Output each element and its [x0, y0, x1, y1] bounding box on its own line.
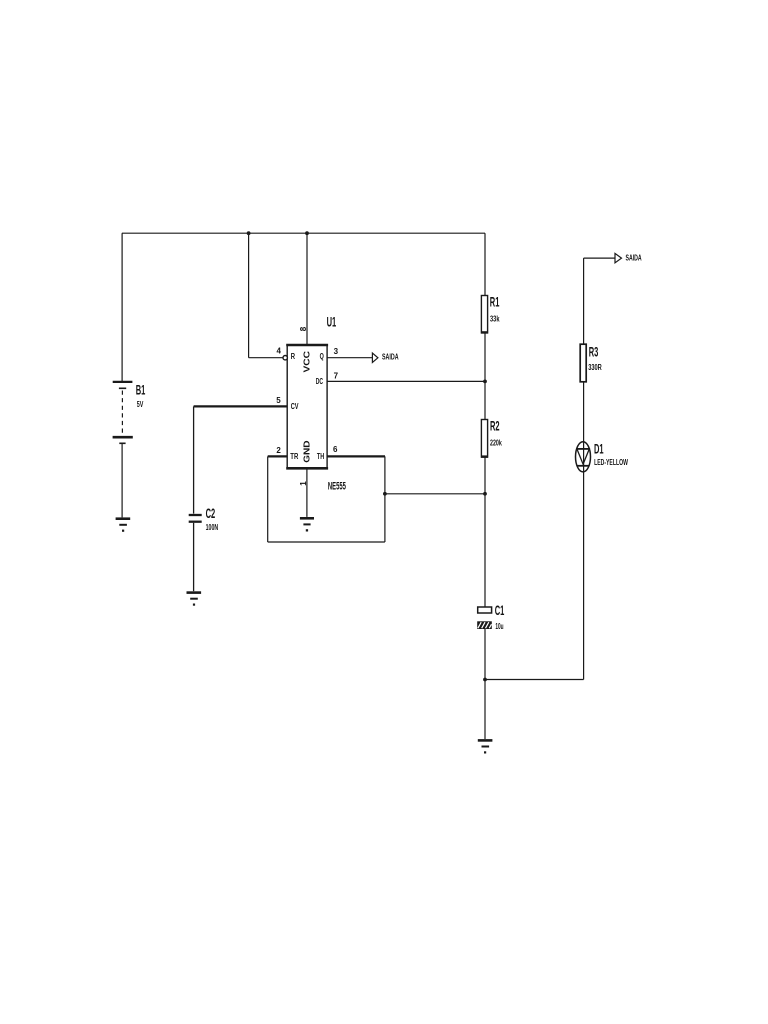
wire: VCC top rail	[122, 232, 485, 234]
wire: C1 to ground	[484, 629, 486, 739]
svg-text:CV: CV	[291, 401, 299, 411]
wire: node to divider	[385, 493, 485, 495]
svg-text:DC: DC	[316, 376, 323, 386]
resistor R2	[481, 420, 488, 458]
svg-text:U1: U1	[327, 314, 337, 330]
svg-text:4: 4	[277, 346, 282, 355]
wire: pin4 branch horizontal	[249, 357, 284, 359]
wire: B1 top vertical	[121, 233, 123, 381]
wire: R2 to C1	[484, 457, 486, 607]
wire: DC pin 7 to divider	[327, 380, 485, 382]
wire: TH pin 6 (thick)	[327, 455, 385, 457]
junction dot (divider / node wire)	[483, 492, 487, 496]
svg-text:6: 6	[333, 445, 338, 454]
wire: TR loop bottom	[268, 541, 385, 543]
svg-text:R3: R3	[589, 343, 599, 359]
svg-text:3: 3	[334, 347, 339, 356]
net arrow SAIDA (LED branch)	[615, 253, 622, 262]
wire: C2 to ground	[193, 523, 195, 591]
wire: SAIDA stub (LED branch)	[584, 257, 615, 259]
capacitor C2	[189, 515, 202, 522]
svg-text:B1: B1	[136, 381, 146, 397]
junction dot (loop / node wire)	[383, 492, 387, 496]
svg-text:C1: C1	[495, 602, 505, 618]
svg-text:7: 7	[334, 372, 339, 381]
svg-text:SAIDA: SAIDA	[382, 351, 399, 361]
svg-text:GND: GND	[302, 441, 312, 463]
svg-text:5: 5	[276, 396, 281, 405]
capacitor C1 (electrolytic)	[477, 607, 492, 629]
wire: rail to R1	[484, 233, 486, 295]
junction dot (rail / pin4 branch)	[247, 231, 251, 235]
svg-text:R1: R1	[490, 294, 500, 310]
svg-text:33k: 33k	[490, 313, 500, 323]
junction dot (DC / divider)	[483, 380, 487, 384]
svg-text:TH: TH	[317, 451, 324, 461]
svg-text:LED-YELLOW: LED-YELLOW	[594, 457, 628, 467]
wire: TR pin 2 (thick)	[268, 455, 288, 457]
LED D1	[576, 442, 591, 472]
svg-text:SAIDA: SAIDA	[626, 253, 642, 263]
wire: CV pin 5 (thick)	[194, 405, 288, 407]
svg-text:D1: D1	[594, 440, 604, 456]
svg-text:R2: R2	[490, 418, 500, 434]
wire: pin4 branch vertical	[248, 233, 250, 358]
svg-text:C2: C2	[206, 505, 216, 521]
wire: VCC pin 8 vertical	[306, 233, 308, 344]
svg-text:Q: Q	[320, 351, 324, 361]
op-amp U1 body (NE555)	[286, 345, 328, 469]
svg-text:NE555: NE555	[328, 480, 346, 492]
svg-text:TR: TR	[290, 451, 299, 461]
svg-text:220k: 220k	[490, 437, 502, 447]
ground (C1)	[478, 740, 493, 753]
ground (U1 pin 1)	[300, 518, 314, 531]
wire: B1 bottom vertical	[121, 443, 123, 517]
resistor R3	[580, 344, 586, 382]
wire: C2 vertical	[193, 406, 195, 513]
svg-text:R: R	[291, 351, 296, 361]
battery B1	[113, 382, 133, 443]
wire: Q output pin 3	[327, 357, 372, 359]
svg-text:VCC: VCC	[302, 351, 312, 373]
svg-text:8: 8	[299, 326, 308, 331]
resistor R1	[481, 296, 488, 333]
wire: LED return horizontal	[485, 679, 584, 681]
junction dot (rail / VCC branch)	[305, 231, 309, 235]
net arrow SAIDA (pin 3)	[372, 353, 378, 362]
wire: TR loop left vertical	[267, 456, 269, 542]
wire: TR loop right vertical	[384, 456, 386, 542]
svg-text:2: 2	[276, 446, 281, 455]
ground (B1)	[116, 519, 131, 532]
svg-text:10u: 10u	[495, 621, 503, 631]
junction dot (C1 / LED return)	[483, 678, 487, 682]
svg-text:5V: 5V	[137, 399, 144, 409]
wire: GND pin 1 vertical	[306, 468, 308, 517]
svg-text:100N: 100N	[206, 522, 219, 532]
wire: R1 to R2	[484, 333, 486, 420]
ground (C2)	[187, 593, 202, 606]
inversion bubble (pin 4 R)	[283, 356, 287, 360]
wire: LED branch vertical	[583, 258, 585, 679]
svg-text:330R: 330R	[588, 362, 602, 372]
